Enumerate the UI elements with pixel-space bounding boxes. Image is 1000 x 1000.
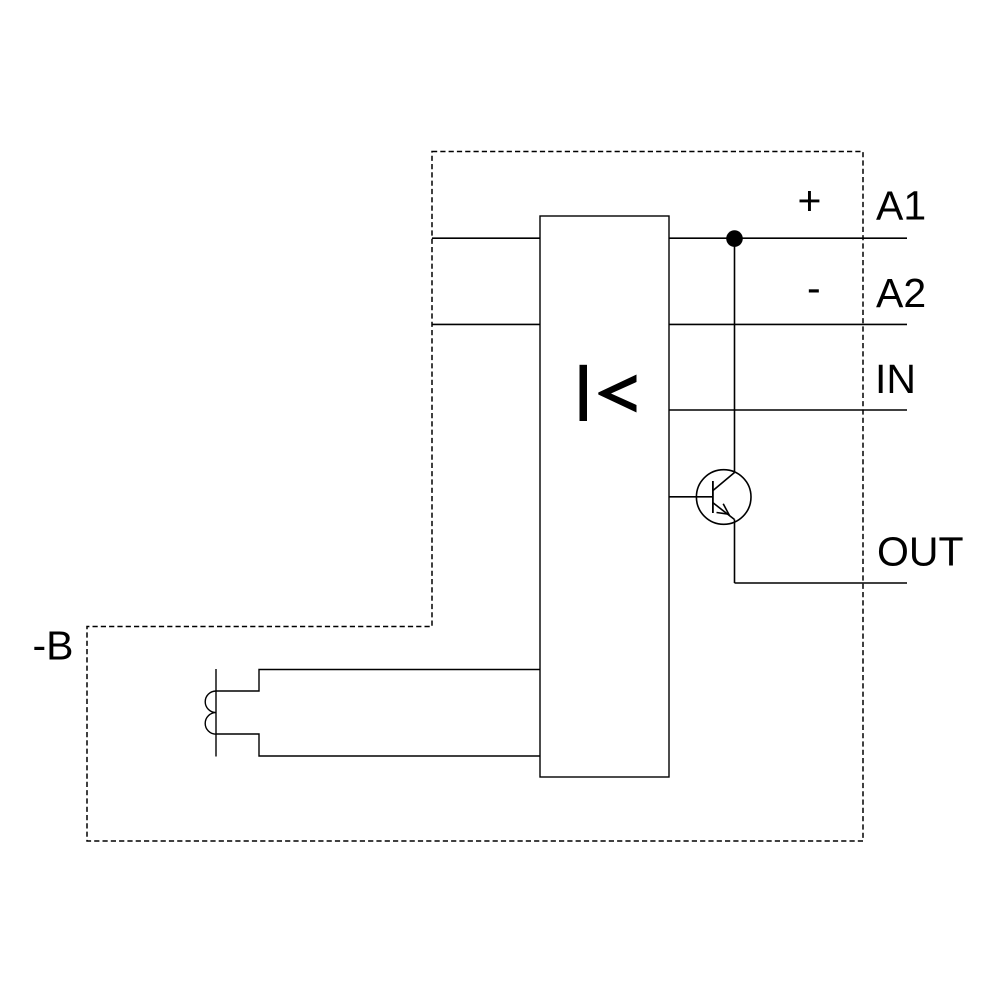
sensor coil arcs bbox=[205, 691, 216, 734]
wire IN bbox=[669, 409, 907, 411]
symbol I< bar bbox=[580, 365, 588, 421]
wire A1 right bbox=[669, 237, 907, 239]
dashed enclosure outline bbox=[87, 152, 863, 842]
symbol I< chevron bbox=[598, 375, 636, 413]
svg-text:OUT: OUT bbox=[877, 528, 964, 574]
svg-text:-B: -B bbox=[33, 622, 74, 668]
sensor body outline top bbox=[216, 670, 540, 692]
wire A2 left bbox=[432, 323, 540, 325]
svg-text:IN: IN bbox=[875, 356, 916, 402]
sensor body outline bottom bbox=[216, 734, 540, 756]
svg-text:-: - bbox=[807, 265, 821, 311]
svg-text:A2: A2 bbox=[876, 270, 926, 316]
transistor emitter arrow bbox=[717, 504, 729, 514]
wire A1 left bbox=[432, 237, 540, 239]
svg-text:+: + bbox=[798, 177, 822, 223]
transistor Q1 circle bbox=[696, 470, 751, 525]
wire OUT bbox=[735, 582, 908, 584]
transistor base bar bbox=[712, 481, 714, 513]
wire collector vertical bbox=[734, 238, 736, 472]
sensor core line bbox=[215, 669, 217, 757]
transistor collector diagonal bbox=[713, 473, 735, 491]
wire A2 right bbox=[669, 323, 907, 325]
junction node on A1 bbox=[726, 230, 743, 247]
block U1 (converter) bbox=[540, 216, 669, 777]
wire transistor base bbox=[669, 496, 714, 498]
transistor emitter diagonal bbox=[713, 503, 735, 520]
wire emitter vertical bbox=[734, 520, 736, 584]
svg-text:A1: A1 bbox=[876, 183, 926, 229]
